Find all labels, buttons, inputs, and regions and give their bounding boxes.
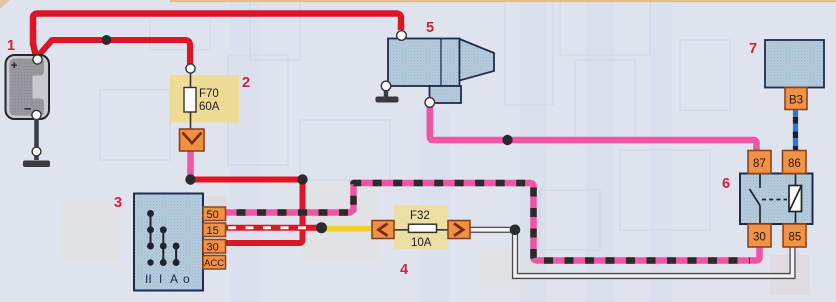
- page corner top-left: [0, 0, 10, 9]
- junction red corner: [297, 174, 307, 184]
- wire red battery+ to starter (top): [33, 14, 401, 57]
- battery 1: [6, 55, 50, 120]
- wire red to ignition switch 30: [191, 180, 303, 244]
- svg-text:30: 30: [753, 232, 766, 244]
- svg-text:10A: 10A: [411, 237, 432, 249]
- svg-text:3: 3: [114, 195, 122, 211]
- svg-text:15: 15: [207, 225, 219, 237]
- svg-text:F32: F32: [410, 210, 430, 222]
- junction on red feed wire: [102, 35, 112, 45]
- svg-text:7: 7: [749, 41, 757, 57]
- svg-text:II: II: [145, 272, 152, 286]
- svg-text:ACC: ACC: [204, 258, 224, 269]
- wire pink-black dashed: switch 50 to relay 30: [225, 183, 760, 261]
- connector arrow below fuse 2: [180, 129, 205, 151]
- relay terminal 87: [748, 151, 771, 174]
- svg-text:+: +: [11, 60, 17, 72]
- wire red battery+ to fuse F70: [39, 40, 190, 64]
- wire pink: starter solenoid to relay 87: [430, 104, 757, 151]
- svg-text:–: –: [24, 101, 31, 116]
- relay terminal 85: [783, 224, 806, 247]
- background watermark: [100, 0, 730, 250]
- wire pink fuse F70 output: [187, 150, 194, 180]
- svg-text:A: A: [170, 272, 178, 286]
- terminal 50: [203, 207, 226, 221]
- svg-text:1: 1: [7, 38, 15, 54]
- junction pink/red: [185, 174, 195, 184]
- wire red-white dashed: switch 15 to junction: [225, 225, 318, 231]
- svg-text:o: o: [183, 272, 190, 286]
- svg-text:30: 30: [207, 242, 219, 254]
- svg-text:6: 6: [722, 176, 730, 192]
- wire yellow to fuse F32: [320, 226, 374, 232]
- terminal ACC: [203, 256, 226, 270]
- junction red-white/yellow: [316, 222, 327, 233]
- terminal 30: [203, 240, 226, 254]
- terminal 15: [203, 223, 226, 237]
- svg-text:F70: F70: [199, 88, 219, 100]
- relay terminal 86: [783, 151, 807, 174]
- wire blue-black dashed: B3 to relay 86: [793, 109, 798, 151]
- control unit 7: [765, 40, 824, 88]
- relay terminal 30: [748, 224, 771, 247]
- ignition switch 3: [134, 194, 203, 291]
- svg-text:85: 85: [789, 232, 802, 244]
- svg-text:B3: B3: [789, 95, 803, 107]
- fuse F70 60A (2): [170, 64, 239, 130]
- page top edge: [170, 0, 836, 2]
- ground battery: [23, 119, 50, 167]
- svg-text:2: 2: [242, 75, 250, 91]
- terminal B3: [785, 88, 807, 110]
- fuse F32 10A (4): [394, 205, 448, 249]
- ground starter: [376, 90, 399, 103]
- svg-text:I: I: [159, 272, 162, 286]
- svg-text:60A: 60A: [199, 101, 220, 113]
- connector arrow right of fuse 4: [448, 221, 470, 239]
- svg-text:86: 86: [788, 158, 801, 170]
- junction white wire: [510, 225, 521, 236]
- svg-text:50: 50: [207, 209, 219, 221]
- svg-text:5: 5: [426, 20, 434, 36]
- svg-text:4: 4: [400, 262, 408, 278]
- relay 6: [740, 174, 813, 225]
- svg-text:87: 87: [753, 158, 766, 170]
- junction on pink wire: [502, 135, 512, 145]
- starter 5: [381, 31, 494, 108]
- connector arrow left of fuse 4: [372, 221, 394, 239]
- wire white: fuse F32 to relay 85: [470, 230, 793, 276]
